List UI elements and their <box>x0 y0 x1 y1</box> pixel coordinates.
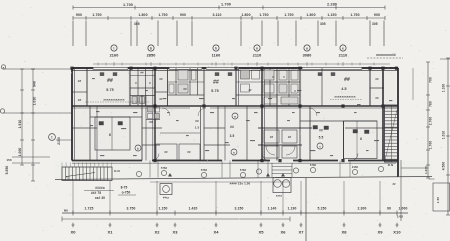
svg-text:3.5: 3.5 <box>230 134 235 138</box>
svg-text:1.800: 1.800 <box>241 13 250 17</box>
porch edge dashes above left stair <box>62 163 111 167</box>
svg-text:1.750: 1.750 <box>284 13 293 17</box>
svg-text:##xx: ##xx <box>163 196 170 200</box>
svg-text:1/02: 1/02 <box>397 215 403 219</box>
svg-text:##: ## <box>107 78 113 84</box>
svg-text:2150: 2150 <box>57 137 61 145</box>
tiny dim ticks row above top wall <box>98 63 374 66</box>
right vertical dim line 2 <box>440 58 450 215</box>
extension lines to bottom dim <box>73 160 401 221</box>
svg-text:X0: X0 <box>70 230 76 235</box>
unit B closet column <box>155 68 168 106</box>
svg-text:3.150: 3.150 <box>235 207 244 211</box>
svg-text:900: 900 <box>374 13 380 17</box>
svg-text:1.700: 1.700 <box>123 3 133 7</box>
entrance steps unit C <box>272 163 292 177</box>
svg-text:780: 780 <box>429 101 433 107</box>
grid extension lines from top dims to plan <box>73 21 384 47</box>
building outer wall: right <box>397 68 399 177</box>
svg-text:##: ## <box>159 97 163 101</box>
svg-text:5762: 5762 <box>201 168 208 172</box>
unit B lower rooms <box>149 106 247 161</box>
svg-text:1.725: 1.725 <box>85 207 94 211</box>
entrance door arcs <box>152 146 358 161</box>
svg-text:##: ## <box>288 135 292 139</box>
svg-text:1.150: 1.150 <box>159 207 168 211</box>
svg-text:X2: X2 <box>154 230 160 235</box>
building outer wall: top <box>72 68 398 70</box>
svg-text:5762: 5762 <box>161 166 168 170</box>
svg-text:##: ## <box>392 182 396 186</box>
svg-text:####o: ####o <box>95 186 105 190</box>
staircase right interior <box>385 105 399 167</box>
svg-text:1.510: 1.510 <box>18 120 22 129</box>
svg-text:6: 6 <box>360 137 362 141</box>
unit A lower rooms <box>90 95 160 161</box>
svg-text:X8: X8 <box>341 230 347 235</box>
balcony edge line top right <box>412 68 414 100</box>
svg-text:##: ## <box>164 150 168 154</box>
corridor door arcs <box>162 108 317 116</box>
flexible board note unit C <box>330 95 362 100</box>
svg-text:X3: X3 <box>172 230 178 235</box>
window segments on top wall <box>93 67 362 69</box>
triangle marks <box>168 173 285 177</box>
svg-text:1.150: 1.150 <box>327 13 336 17</box>
bottom dimension line 2 <box>62 217 290 222</box>
ground line long <box>55 177 432 180</box>
left vertical dimension line 1 <box>18 69 37 165</box>
window post marks in washitsu rooms <box>100 73 335 76</box>
party wall B/C <box>262 68 264 161</box>
party wall A/B <box>153 68 155 161</box>
svg-text:o-750: o-750 <box>122 191 131 195</box>
drainage note text block <box>84 186 136 201</box>
svg-text:5.5: 5.5 <box>319 136 324 140</box>
svg-text:1.750: 1.750 <box>350 13 359 17</box>
room label unit C washitsu <box>341 77 350 91</box>
svg-text:1.800: 1.800 <box>138 13 147 17</box>
parapet tick line above top wall <box>93 62 390 66</box>
svg-text:##: ## <box>248 88 252 92</box>
svg-text:5.75: 5.75 <box>106 88 113 92</box>
column grid bubbles row <box>110 45 348 58</box>
right vertical dim line 1 <box>424 62 433 178</box>
svg-text:3080: 3080 <box>303 54 312 58</box>
svg-text:#### 13o 1.50: #### 13o 1.50 <box>230 182 251 186</box>
long grid line X7 down <box>305 178 307 241</box>
svg-text:D.N: D.N <box>388 163 393 167</box>
svg-text:##: ## <box>270 135 274 139</box>
scan smudge washes <box>128 69 156 106</box>
X grid labels <box>70 223 401 235</box>
svg-text:305: 305 <box>372 22 378 26</box>
svg-text:1.000: 1.000 <box>399 207 408 211</box>
porch posts below bottom wall <box>150 161 350 178</box>
svg-text:5762: 5762 <box>240 168 247 172</box>
svg-text:2.300: 2.300 <box>358 207 367 211</box>
svg-text:##: ## <box>140 71 144 75</box>
svg-text:h: h <box>215 47 217 51</box>
svg-text:3162: 3162 <box>352 165 359 169</box>
svg-text:n: n <box>256 47 258 51</box>
unit C lower rooms <box>264 106 377 161</box>
ground line secondary <box>150 181 290 183</box>
svg-text:3.750: 3.750 <box>127 207 136 211</box>
svg-text:X5: X5 <box>258 230 264 235</box>
room label unit A washitsu <box>106 78 113 92</box>
horizontal wall y145 segments <box>142 144 302 146</box>
inspection chamber box <box>160 184 172 200</box>
svg-text:b: b <box>137 147 139 151</box>
unit B kitchen cluster <box>168 68 205 106</box>
horizontal wall y128 segments <box>72 127 398 129</box>
svg-text:700: 700 <box>429 77 433 83</box>
svg-text:X6: X6 <box>280 230 286 235</box>
svg-text:150: 150 <box>6 158 12 162</box>
svg-text:M0: M0 <box>64 209 68 213</box>
svg-text:900: 900 <box>76 13 82 17</box>
svg-text:2850: 2850 <box>147 54 156 58</box>
unit C fixture cluster <box>262 68 300 106</box>
left vertical dimension line 2 <box>5 69 35 181</box>
svg-text:o: o <box>233 151 235 155</box>
svg-text:##: ## <box>78 98 82 102</box>
svg-text:##: ## <box>195 119 199 123</box>
svg-text:X7: X7 <box>298 230 304 235</box>
left row grid bubble 2150 <box>49 134 72 145</box>
svg-text:4.500: 4.500 <box>442 162 446 171</box>
svg-text:##: ## <box>213 80 219 86</box>
bottom dimension line 1 <box>62 207 408 219</box>
svg-text:X9: X9 <box>377 230 383 235</box>
svg-text:1.400: 1.400 <box>424 166 428 174</box>
propane cylinders <box>273 178 291 198</box>
svg-text:o: o <box>306 47 308 51</box>
svg-text:3.110: 3.110 <box>212 13 221 17</box>
svg-text:1.100: 1.100 <box>442 84 446 93</box>
svg-text:D.N: D.N <box>114 169 119 173</box>
svg-text:##: ## <box>78 79 82 83</box>
drain circles row <box>136 163 383 178</box>
svg-text:i: i <box>114 47 115 51</box>
closet column right <box>362 68 384 161</box>
unit A closet column <box>72 68 87 106</box>
svg-text:1.750: 1.750 <box>259 13 268 17</box>
svg-text:##: ## <box>230 125 234 129</box>
svg-text:2160: 2160 <box>110 54 119 58</box>
svg-text:1160: 1160 <box>212 54 221 58</box>
svg-text:1.800: 1.800 <box>306 13 315 17</box>
svg-text:##: ## <box>149 120 153 124</box>
unit C washitsu left wall <box>300 68 322 161</box>
svg-text:xx# 30: xx# 30 <box>95 196 105 200</box>
svg-text:1.750: 1.750 <box>92 13 101 17</box>
svg-text:5782: 5782 <box>310 163 317 167</box>
building zone gray wash <box>72 68 396 161</box>
svg-text:4.5: 4.5 <box>341 87 346 91</box>
svg-text:xxxx: xxxx <box>276 195 283 198</box>
svg-text:2.700: 2.700 <box>429 117 433 126</box>
svg-text:6: 6 <box>109 133 111 137</box>
svg-text:##: ## <box>159 77 163 81</box>
svg-text:##: ## <box>183 87 187 91</box>
svg-text:8-75: 8-75 <box>121 186 128 190</box>
building outer wall: left <box>72 68 74 161</box>
handrail note bottom <box>230 182 251 186</box>
svg-text:t: t <box>51 136 53 140</box>
dimension line: overall totals (top row) <box>73 3 385 10</box>
svg-text:xxxxxxxxxxxx: xxxxxxxxxxxx <box>103 98 124 102</box>
left grid line b middle <box>0 109 72 113</box>
svg-text:1.000: 1.000 <box>18 148 22 157</box>
dimension line: segment dims (second row) <box>73 13 385 20</box>
svg-text:1.010: 1.010 <box>442 131 446 140</box>
svg-text:##: ## <box>375 96 379 100</box>
svg-text:1.140: 1.140 <box>268 207 277 211</box>
svg-text:2.280: 2.280 <box>327 3 337 7</box>
svg-text:1.190: 1.190 <box>288 207 297 211</box>
room label unit B washitsu <box>211 80 219 94</box>
svg-text:##: ## <box>375 77 379 81</box>
svg-text:##: ## <box>187 150 191 154</box>
svg-text:X10: X10 <box>393 230 401 235</box>
building outer wall: bottom <box>72 161 398 164</box>
svg-text:##: ## <box>319 129 323 133</box>
svg-text:X1: X1 <box>107 230 113 235</box>
svg-text:b: b <box>150 47 152 51</box>
window height marks 305 <box>134 22 378 26</box>
svg-text:900: 900 <box>180 13 186 17</box>
unit B washitsu right wall <box>236 68 262 106</box>
svg-text:1.750: 1.750 <box>158 13 167 17</box>
right small note <box>392 182 396 186</box>
svg-text:n: n <box>234 115 236 119</box>
svg-text:1.700: 1.700 <box>429 141 433 150</box>
staircase left exterior steps <box>62 167 120 181</box>
wall post blocks <box>70 67 398 163</box>
svg-text:xxxxxxxxxxxx: xxxxxxxxxxxx <box>334 95 355 99</box>
unit A bath cluster walls <box>130 68 155 106</box>
lower-left short dim lines <box>12 157 50 163</box>
svg-text:5.150: 5.150 <box>318 207 327 211</box>
svg-text:1.700: 1.700 <box>221 3 231 7</box>
svg-text:##: ## <box>344 77 350 83</box>
svg-text:1.5: 1.5 <box>195 126 200 130</box>
corridor wall horizontal mid <box>72 106 398 108</box>
svg-text:5.75: 5.75 <box>211 89 218 93</box>
left grid line a top <box>1 65 72 70</box>
svg-text:xxxxxxxx##: xxxxxxxx## <box>376 53 396 57</box>
svg-text:305: 305 <box>134 22 140 26</box>
plan marker bubbles on walls <box>135 113 323 155</box>
svg-text:e: e <box>342 47 344 51</box>
flexible board note unit A <box>85 98 150 103</box>
small annotation marks scatter <box>90 78 392 156</box>
svg-text:305: 305 <box>320 22 326 26</box>
svg-text:2110: 2110 <box>339 54 348 58</box>
svg-text:1.420: 1.420 <box>189 207 198 211</box>
right connector to dim box <box>401 168 450 211</box>
svg-text:t: t <box>319 145 320 149</box>
annotation top-right: concrete handrail note <box>367 53 403 58</box>
svg-text:X4: X4 <box>213 230 219 235</box>
